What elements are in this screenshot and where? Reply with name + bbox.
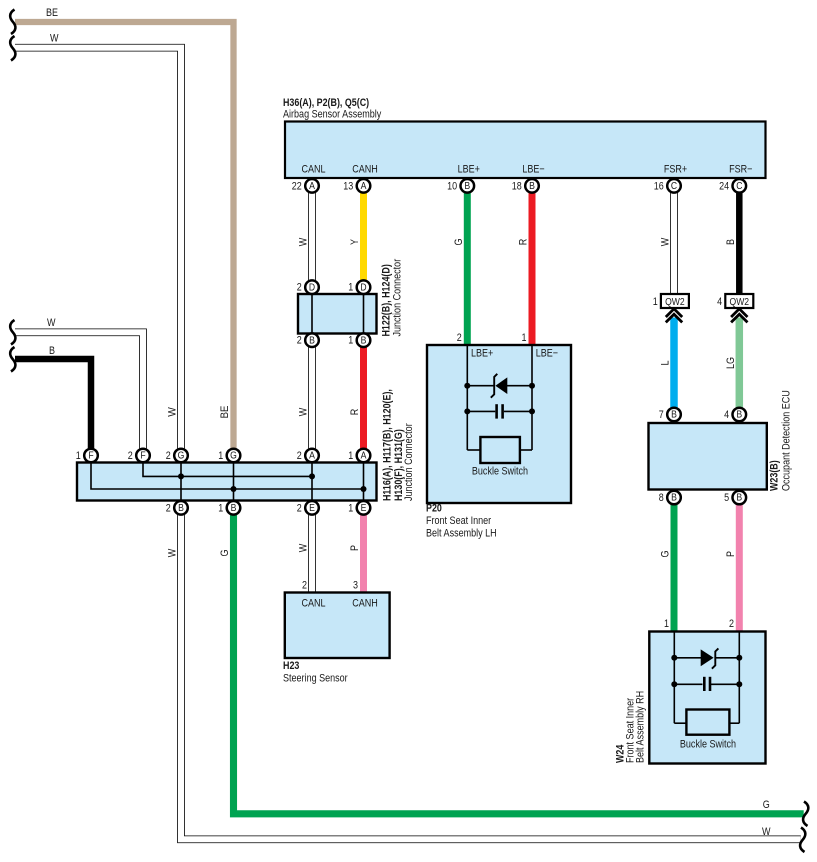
P20 internal pin names [471, 348, 558, 360]
svg-text:C: C [671, 180, 678, 192]
svg-text:R: R [518, 239, 530, 246]
wire colour labels to H23 [298, 543, 362, 552]
pin 1(B) junction bottom [218, 501, 240, 515]
svg-text:W: W [167, 548, 179, 557]
svg-text:2: 2 [297, 282, 302, 294]
svg-text:2: 2 [297, 450, 302, 462]
svg-text:D: D [309, 281, 316, 293]
svg-text:FSR+: FSR+ [664, 164, 687, 176]
svg-text:CANL: CANL [301, 164, 325, 176]
pin 5(B) W23 bottom [724, 491, 746, 505]
svg-text:7: 7 [659, 409, 664, 421]
svg-text:G: G [660, 551, 672, 558]
svg-text:CANH: CANH [352, 598, 378, 610]
svg-text:4: 4 [717, 296, 722, 308]
wire P (junction 1(E) to H23 pin 3) [360, 515, 367, 594]
svg-text:LBE−: LBE− [522, 164, 544, 176]
svg-text:W: W [298, 237, 310, 246]
wire L (QW2 to W23 7(B)) [670, 318, 678, 409]
svg-text:1: 1 [522, 332, 527, 344]
label W24 Front Seat Inner Belt Assembly RH [615, 691, 647, 763]
pin 2(F) junction [128, 449, 150, 463]
svg-text:F: F [88, 450, 93, 462]
pin 1(F) junction [76, 449, 98, 463]
pin 22(A) airbag CANL [292, 179, 319, 193]
svg-text:QW2: QW2 [665, 296, 685, 308]
svg-text:2: 2 [128, 450, 133, 462]
svg-text:E: E [361, 502, 367, 514]
svg-text:2: 2 [297, 335, 302, 347]
junction connector H122/H124 box [298, 294, 377, 334]
svg-text:A: A [361, 180, 367, 192]
svg-text:1: 1 [653, 296, 658, 308]
wire W CANL (airbag 22(A) to H122 2(D)) [308, 192, 316, 281]
svg-text:D: D [360, 281, 367, 293]
pin 2(G) junction [166, 449, 188, 463]
svg-text:Junction Connector: Junction Connector [403, 423, 415, 501]
connector QW2 no.4 [717, 294, 753, 308]
pin 4(B) W23 [724, 408, 746, 422]
junction dots W24 [671, 655, 677, 661]
svg-text:W: W [47, 317, 56, 329]
svg-text:P: P [349, 545, 361, 551]
svg-text:LBE+: LBE+ [471, 348, 493, 360]
connector QW2 no.1 [653, 294, 689, 308]
svg-text:Front Seat Inner: Front Seat Inner [426, 515, 491, 527]
svg-text:B: B [309, 334, 315, 346]
zener diode in P20 (pointing left) [491, 374, 508, 398]
pin 2(B) junction bottom [166, 501, 188, 515]
wire W (mid-left to junction connector 2(F)) [15, 332, 143, 448]
H23 internal pin names [301, 598, 377, 610]
ECU W23 Occupant Detection ECU box [649, 423, 767, 490]
junction dot at 1(G) column [231, 486, 237, 492]
svg-text:H23: H23 [283, 660, 299, 672]
svg-text:W: W [298, 543, 310, 552]
svg-text:FSR−: FSR− [729, 164, 752, 176]
shield chevrons below QW2 no.1 [666, 309, 682, 323]
wire break symbol W top-left [10, 36, 15, 61]
pin 2(B) H122 [297, 333, 319, 347]
svg-text:2: 2 [302, 580, 307, 592]
svg-text:LBE−: LBE− [536, 348, 558, 360]
svg-text:B: B [736, 409, 742, 421]
label W23(B) Occupant Detection ECU [769, 390, 793, 491]
wire W (top-left to junction connector 2(G)) [15, 48, 181, 449]
svg-text:QW2: QW2 [730, 296, 750, 308]
svg-text:B: B [464, 180, 470, 192]
rotated label H116/H117/H120/H130/H131 junction connector [382, 389, 416, 501]
wire break symbol B mid-left [10, 347, 15, 372]
internal wiring of junction connector [91, 463, 364, 501]
wire G (junction 1(B) to bottom-right edge) [234, 515, 804, 814]
wire LG (QW2 to W23 4(B)) [736, 318, 744, 409]
svg-text:P: P [725, 551, 737, 557]
svg-text:2: 2 [729, 618, 734, 630]
pin 7(B) W23 [659, 408, 681, 422]
svg-text:B: B [231, 502, 237, 514]
connector W24 Front Seat Inner Belt Assembly RH box [649, 632, 765, 764]
svg-text:H116(A), H117(B), H120(E),: H116(A), H117(B), H120(E), [382, 389, 394, 501]
svg-text:16: 16 [654, 180, 664, 192]
pin 13(A) airbag CANH [343, 179, 370, 193]
svg-text:G: G [453, 239, 465, 246]
wire G (W23 8(B) to W24 pin 1) [671, 505, 678, 633]
label H23 Steering Sensor [283, 660, 348, 685]
svg-text:B: B [49, 345, 55, 357]
svg-text:1: 1 [218, 502, 223, 514]
svg-text:CANH: CANH [352, 164, 378, 176]
H23 pin numbers [302, 580, 358, 592]
wire colour labels L and LG [660, 357, 737, 369]
svg-text:A: A [361, 450, 367, 462]
svg-text:8: 8 [659, 492, 664, 504]
connector P20 Front Seat Inner Belt Assembly LH box [427, 345, 571, 503]
pin 8(B) W23 bottom [659, 491, 681, 505]
svg-text:Occupant Detection ECU: Occupant Detection ECU [781, 390, 793, 491]
svg-text:F: F [140, 450, 145, 462]
svg-text:Junction Connector: Junction Connector [392, 259, 404, 337]
label P20 Front Seat Inner Belt Assembly LH [426, 503, 497, 540]
junction dots P20 [464, 383, 470, 389]
svg-text:18: 18 [512, 180, 522, 192]
wire break symbol G bottom-right [803, 802, 808, 827]
wire Y CANH (airbag 13(A) to H122 1(D)) [360, 192, 367, 281]
svg-text:P20: P20 [426, 503, 442, 515]
pin 1(D) H122 [348, 280, 370, 294]
svg-text:B: B [178, 502, 184, 514]
wire R (H122 1(B) to junction 1(A)) [360, 347, 367, 449]
svg-text:2: 2 [297, 502, 302, 514]
svg-text:H36(A), P2(B), Q5(C): H36(A), P2(B), Q5(C) [283, 97, 369, 109]
wire R LBE- (airbag 18(B) to P20 pin 1) [529, 192, 536, 346]
svg-text:4: 4 [724, 409, 729, 421]
junction dot at 2(A) column [309, 473, 315, 479]
junction connector H116/H117/H120/H130/H131 box [77, 463, 377, 501]
svg-text:C: C [736, 180, 743, 192]
wire colour labels below junction left [167, 548, 232, 557]
zener diode in W24 (pointing right) [701, 648, 719, 668]
svg-text:2: 2 [457, 332, 462, 344]
svg-text:LG: LG [725, 357, 737, 369]
svg-text:3: 3 [353, 580, 358, 592]
svg-text:G: G [763, 799, 770, 811]
svg-text:W: W [298, 407, 310, 416]
W24 internal wiring [674, 632, 739, 724]
wire W (junction 2(B) to bottom-right edge) [181, 515, 801, 840]
svg-text:B: B [671, 409, 677, 421]
pin 1(E) junction bottom [348, 501, 370, 515]
svg-text:Belt Assembly LH: Belt Assembly LH [426, 528, 497, 540]
wire B (mid-left to junction connector 1(F)) [15, 359, 91, 449]
pin 2(E) junction bottom [297, 501, 319, 515]
svg-text:R: R [349, 409, 361, 416]
wire G LBE+ (airbag 10(B) to P20 pin 2) [464, 192, 471, 346]
title H36 airbag sensor assembly [283, 97, 382, 121]
wire B FSR- (airbag 24(C) to QW2) [736, 192, 743, 295]
airbag box pin names [301, 164, 752, 176]
svg-text:E: E [309, 502, 315, 514]
P20 internal wiring [467, 345, 532, 450]
junction dot at 1(A) column [361, 486, 367, 492]
svg-text:5: 5 [724, 492, 729, 504]
svg-text:B: B [671, 492, 677, 504]
wire P (W23 5(B) to W24 pin 2) [736, 505, 743, 633]
svg-text:Belt Assembly RH: Belt Assembly RH [635, 691, 647, 763]
svg-text:W: W [167, 407, 179, 417]
svg-text:1: 1 [348, 502, 353, 514]
svg-text:13: 13 [343, 180, 353, 192]
svg-text:W23(B): W23(B) [769, 460, 781, 491]
svg-text:Steering Sensor: Steering Sensor [283, 673, 348, 685]
svg-text:W: W [50, 33, 59, 45]
wire colour labels between H122 and junction [167, 406, 362, 419]
junction dot at 2(G) column [178, 473, 184, 479]
svg-text:A: A [309, 180, 315, 192]
svg-text:1: 1 [76, 450, 81, 462]
capacitor in P20 [497, 404, 503, 418]
svg-text:W: W [762, 826, 771, 838]
P20 pin numbers [457, 332, 527, 344]
svg-text:A: A [309, 450, 315, 462]
svg-text:W: W [660, 237, 672, 246]
svg-text:10: 10 [447, 180, 457, 192]
wire colour labels G/P right side [660, 551, 737, 558]
wire break symbol W bottom-right [800, 828, 805, 853]
svg-text:2: 2 [166, 450, 171, 462]
svg-text:G: G [230, 450, 237, 462]
svg-text:1: 1 [348, 282, 353, 294]
pin 1(A) junction [348, 449, 370, 463]
pin 16(C) airbag FSR+ [654, 179, 681, 193]
svg-text:BE: BE [219, 406, 231, 419]
rotated label H122(B), H124(D) junction connector [381, 259, 404, 337]
buckle switch box P20 [472, 437, 528, 478]
svg-text:G: G [178, 450, 185, 462]
wire W FSR+ (airbag 16(C) to QW2) [670, 192, 678, 295]
svg-text:BE: BE [46, 7, 58, 19]
svg-text:1: 1 [348, 335, 353, 347]
svg-text:Buckle Switch: Buckle Switch [472, 466, 528, 478]
svg-text:L: L [660, 361, 672, 366]
wire colour labels column 1 (below airbag box) [298, 237, 737, 246]
wire W (junction 2(E) to H23 pin 2) [308, 515, 316, 594]
svg-text:CANL: CANL [301, 598, 325, 610]
svg-text:Airbag Sensor Assembly: Airbag Sensor Assembly [283, 109, 382, 121]
svg-text:24: 24 [719, 180, 729, 192]
svg-text:1: 1 [218, 450, 223, 462]
svg-text:2: 2 [166, 502, 171, 514]
ECU H36 Airbag Sensor Assembly box [285, 122, 766, 179]
svg-text:LBE+: LBE+ [458, 164, 480, 176]
svg-text:B: B [529, 180, 535, 192]
shield chevrons below QW2 no.4 [731, 309, 747, 323]
pin 2(A) junction [297, 449, 319, 463]
W24 pin numbers [664, 618, 734, 630]
svg-text:G: G [219, 550, 231, 557]
svg-text:B: B [361, 334, 367, 346]
svg-text:22: 22 [292, 180, 302, 192]
capacitor in W24 [704, 677, 710, 691]
wire break symbol BE top-left [10, 10, 15, 35]
wire BE (top-left to junction connector 1(G)) [15, 22, 234, 449]
svg-text:B: B [736, 492, 742, 504]
pin 1(B) H122 [348, 333, 370, 347]
wire W CANL (H122 2(B) to junction 2(A)) [308, 347, 316, 449]
svg-text:1: 1 [348, 450, 353, 462]
pin 1(G) junction [218, 449, 240, 463]
connector H23 Steering Sensor box [285, 593, 390, 659]
pin 2(D) H122 [297, 280, 319, 294]
pin 18(B) airbag LBE- [512, 179, 539, 193]
svg-text:1: 1 [664, 618, 669, 630]
svg-text:B: B [725, 239, 737, 245]
svg-text:Y: Y [349, 238, 361, 245]
wire break symbol W mid-left [10, 320, 15, 345]
pin 24(C) airbag FSR- [719, 179, 746, 193]
buckle switch box W24 [680, 710, 736, 751]
pin 10(B) airbag LBE+ [447, 179, 474, 193]
svg-text:Buckle Switch: Buckle Switch [680, 739, 736, 751]
